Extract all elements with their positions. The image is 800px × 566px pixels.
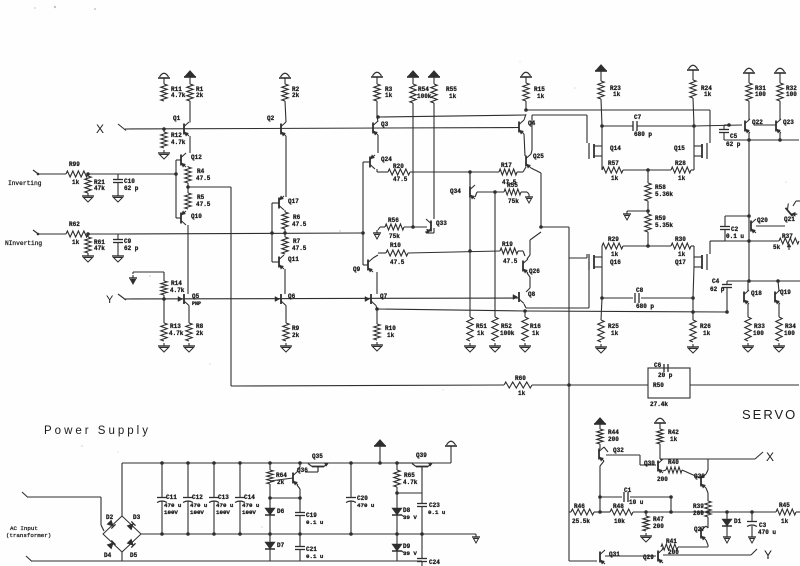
transistor Q31: [599, 552, 601, 563]
wire R29-Q16 drain: [601, 246, 603, 257]
svg-text:1k: 1k: [449, 93, 457, 100]
svg-text:62 p: 62 p: [726, 141, 741, 148]
svg-text:Q32: Q32: [613, 447, 624, 454]
wire positive rail: [122, 462, 451, 464]
resistor R48: [610, 509, 633, 515]
svg-text:R51: R51: [476, 323, 487, 330]
wire Q27 collector: [706, 526, 708, 528]
wire Y servo line: [663, 554, 751, 556]
wire Q20 base line: [756, 225, 785, 227]
svg-text:C9: C9: [124, 238, 132, 245]
wire Q33 emitter: [425, 231, 427, 233]
node R64 top: [268, 461, 272, 465]
svg-text:0.1 u: 0.1 u: [306, 519, 324, 526]
wire R44-Q32: [599, 444, 601, 449]
transistor Q19b: [774, 292, 776, 303]
capacitor C23: [421, 493, 423, 503]
wire R45 end: [796, 511, 800, 513]
wire R1-Q1 collector: [189, 101, 191, 123]
transistor Q10: [180, 213, 182, 224]
power arrow V+ (R32): [776, 68, 785, 72]
svg-text:R99: R99: [69, 161, 80, 168]
transistor Q33: [430, 221, 432, 232]
ground (R61): [87, 253, 89, 256]
svg-text:R34: R34: [785, 323, 796, 330]
svg-text:47.5: 47.5: [390, 259, 405, 266]
capacitor C20: [350, 463, 352, 497]
wire Q35 base: [317, 467, 319, 472]
wire R40-Q28: [682, 470, 700, 478]
wire R32-Q23: [779, 101, 781, 120]
svg-text:5.36k: 5.36k: [655, 191, 673, 198]
wire Q34 down to R51: [469, 198, 471, 318]
svg-text:75k: 75k: [508, 198, 519, 205]
capacitor C6: [663, 364, 665, 372]
resistor R20: [377, 171, 388, 173]
wire R37 line: [749, 240, 779, 242]
node C2 top: [747, 214, 751, 218]
resistor R65: [396, 463, 398, 470]
svg-text:C23: C23: [429, 502, 440, 509]
wire C1 right down: [670, 497, 672, 512]
power arrow (R44): [596, 418, 605, 423]
ground (R34): [778, 343, 780, 346]
power arrow V+ (R24): [689, 65, 698, 69]
svg-text:25.5k: 25.5k: [572, 518, 590, 525]
svg-text:R42: R42: [668, 429, 679, 436]
wire D7-bottom: [269, 549, 271, 561]
transistor Q39: [416, 466, 428, 468]
svg-text:R59: R59: [655, 215, 666, 222]
capacitor C5: [723, 125, 725, 130]
capacitor C8: [602, 297, 633, 299]
resistor R42: [657, 429, 663, 444]
bridge rectifier diamond: [103, 516, 141, 552]
power arrow V+ (R54): [409, 71, 418, 76]
node R11/X junction: [162, 127, 166, 131]
wire D1 C3 line: [727, 511, 776, 513]
power arrow V+ (R11): [160, 73, 169, 77]
transistor Q3: [372, 123, 374, 134]
node Q22 emitter: [747, 138, 751, 142]
transistor Q11: [278, 257, 280, 268]
svg-text:Q10: Q10: [191, 213, 202, 220]
ground (R10b): [376, 342, 378, 345]
svg-text:100: 100: [753, 330, 764, 337]
svg-text:Q7: Q7: [380, 293, 388, 300]
svg-text:Q29: Q29: [643, 554, 654, 561]
node C2 bottom: [747, 239, 751, 243]
transistor Q17 upper: [278, 198, 280, 209]
node R62 out: [86, 232, 90, 236]
power arrow (R42): [656, 418, 665, 422]
wire X out line: [660, 458, 755, 460]
ground (R33): [747, 343, 749, 346]
wire Q17 source down: [693, 267, 694, 298]
svg-text:R8: R8: [196, 323, 204, 330]
resistor R1: [187, 84, 193, 101]
wire Q27 emitter down: [706, 540, 708, 545]
resistor R29: [602, 243, 623, 249]
power arrow V+ (R3): [373, 72, 382, 76]
node bias bottom: [646, 244, 650, 248]
wire R14-Y: [163, 295, 165, 299]
wire Q5-R8: [188, 306, 190, 324]
node R14/Y junction: [162, 297, 166, 301]
MOSFET Q14: [588, 143, 590, 159]
wire Q7 emitter: [376, 306, 377, 310]
MOSFET Q16: [588, 254, 590, 270]
svg-text:62 p: 62 p: [124, 185, 139, 192]
svg-text:62 p: 62 p: [710, 286, 725, 293]
ground (R16): [524, 343, 526, 346]
svg-text:R39: R39: [693, 503, 704, 510]
wire R55 node down to R52: [494, 192, 496, 317]
wire Q24-R20: [376, 169, 378, 172]
wire Q1 emitter down: [189, 136, 191, 153]
node bias mid: [646, 209, 650, 213]
svg-text:1k: 1k: [477, 330, 485, 337]
power arrow V+ (R31): [745, 68, 754, 72]
svg-text:Q20: Q20: [757, 217, 768, 224]
wire Q23 emitter: [779, 133, 781, 140]
diode D7: [269, 534, 271, 542]
svg-text:C8: C8: [636, 287, 644, 294]
resistor R46: [569, 511, 571, 513]
resistor R13: [163, 299, 165, 323]
svg-text:47k: 47k: [94, 245, 105, 252]
svg-text:2k: 2k: [196, 92, 204, 99]
ground (D1): [726, 526, 728, 534]
transistor Q32: [598, 449, 600, 460]
svg-text:4.7k: 4.7k: [169, 330, 184, 337]
resistor R2: [282, 84, 288, 101]
node C3 top: [750, 510, 754, 514]
wire R64-C19 link: [270, 497, 300, 499]
ground (R55): [528, 194, 530, 197]
svg-text:100k: 100k: [417, 93, 432, 100]
resistor R30: [671, 243, 691, 249]
resistor R7: [282, 237, 288, 254]
capacitor C19: [299, 498, 301, 512]
wire R19-Q26: [518, 250, 523, 252]
resistor R16: [524, 311, 526, 317]
transistor Q30: [657, 461, 659, 472]
resistor R32: [777, 83, 783, 101]
svg-text:1k: 1k: [703, 330, 711, 337]
wire Q32 emitter down: [600, 461, 604, 466]
svg-text:1k: 1k: [678, 251, 686, 258]
Y input tick: [118, 294, 126, 300]
wire y110: [526, 109, 710, 111]
resistor R39 trimmer: [705, 501, 711, 517]
ground (R8): [188, 343, 190, 346]
wire servo bottom wire: [568, 512, 570, 561]
ground (R56): [376, 230, 378, 233]
svg-text:1k: 1k: [518, 390, 526, 397]
svg-text:1k: 1k: [611, 251, 619, 258]
capacitor C13: [212, 461, 216, 465]
svg-text:470 u: 470 u: [242, 502, 260, 509]
svg-text:10 u: 10 u: [629, 499, 644, 506]
wire Q26 emitter down: [527, 273, 530, 277]
node R64 bottom: [268, 496, 272, 500]
power arrow (rail): [376, 440, 385, 445]
transistor Q36: [292, 473, 294, 484]
svg-text:R56: R56: [388, 217, 399, 224]
wire R28-Q15 source: [691, 169, 694, 171]
svg-text:39 V: 39 V: [403, 550, 417, 557]
resistor R23: [598, 81, 604, 99]
wire Q23 base line: [754, 124, 776, 126]
wire R55b-Q33 collector: [433, 103, 435, 219]
capacitor C7: [602, 125, 633, 127]
resistor R6: [282, 212, 288, 229]
node Q23 emitter: [778, 138, 782, 142]
svg-text:1k: 1k: [670, 436, 678, 443]
resistor R99: [66, 171, 88, 177]
resistor R28: [671, 167, 691, 173]
svg-text:Q24: Q24: [381, 156, 392, 163]
node R47 tap: [644, 510, 648, 514]
resistor R10b: [376, 309, 378, 324]
svg-text:4.7k: 4.7k: [403, 479, 418, 486]
node feedback/bracket junction: [361, 231, 365, 235]
svg-text:C7: C7: [634, 114, 642, 121]
svg-text:SERVO: SERVO: [742, 407, 797, 422]
svg-text:Q18: Q18: [751, 290, 762, 297]
svg-text:R25: R25: [608, 323, 619, 330]
wire y117: [378, 115, 525, 117]
resistor R59: [645, 214, 651, 232]
svg-text:Q17: Q17: [288, 198, 299, 205]
svg-text:20 p: 20 p: [658, 372, 673, 379]
svg-text:100: 100: [784, 330, 795, 337]
wire Q34 collector up: [469, 171, 471, 187]
svg-text:Q8: Q8: [528, 291, 536, 298]
svg-text:R20: R20: [393, 163, 404, 170]
node R99 out: [86, 172, 90, 176]
ground (R14 top): [132, 275, 134, 278]
wire R57-R28: [623, 169, 671, 171]
node R6/R7 junction: [283, 231, 287, 235]
svg-text:Q11: Q11: [288, 256, 299, 263]
resistor R8: [186, 323, 192, 341]
wire R54 down: [412, 103, 414, 227]
svg-text:100V: 100V: [164, 509, 178, 516]
wire R31-Q22: [748, 101, 750, 120]
svg-text:R29: R29: [608, 236, 619, 243]
svg-text:R12: R12: [171, 132, 182, 139]
resistor R4: [185, 167, 191, 183]
wire servo left column: [568, 385, 570, 512]
wire to C10: [88, 173, 118, 175]
svg-text:R16: R16: [530, 323, 541, 330]
svg-text:200: 200: [657, 476, 668, 483]
svg-text:PNP: PNP: [192, 301, 201, 307]
wire Q9 emitter down: [376, 272, 378, 294]
ground (R25): [600, 344, 602, 347]
ground (R13): [163, 343, 165, 346]
wire Q36 base: [270, 478, 293, 481]
svg-text:R9: R9: [292, 325, 300, 332]
svg-text:D9: D9: [403, 543, 411, 550]
node servo tap: [567, 383, 571, 387]
transistor Q18b: [743, 292, 745, 303]
resistor R14: [161, 281, 167, 295]
AC input tick top: [22, 492, 28, 498]
svg-text:R10: R10: [385, 325, 396, 332]
wire C19-rail: [299, 516, 301, 535]
resistor R5: [185, 193, 191, 209]
wire Q14 source-R57: [601, 156, 603, 170]
svg-text:D4: D4: [104, 552, 112, 559]
wire C5 top: [724, 124, 729, 126]
svg-text:Q23: Q23: [783, 119, 794, 126]
transistor Q8: [518, 292, 520, 302]
svg-text:1k: 1k: [532, 330, 540, 337]
svg-text:R40: R40: [668, 459, 679, 466]
wire Q3 collector: [377, 117, 378, 122]
transistor Q1: [183, 124, 185, 135]
power arrow V+ (R15): [522, 72, 531, 76]
wire bridge bottom: [121, 552, 123, 561]
transistor Q7: [370, 294, 372, 304]
capacitor C12: [186, 461, 190, 465]
AC input tick bottom: [26, 556, 32, 562]
wire y309: [377, 309, 525, 311]
wire bridge top to rail: [121, 463, 123, 516]
wire R24-Q15 drain: [693, 98, 694, 126]
wire R17-Q25: [517, 171, 523, 173]
resistor R64: [269, 463, 271, 470]
power arrow V+ (R1): [186, 71, 195, 76]
svg-text:D3: D3: [133, 514, 141, 521]
svg-text:1k: 1k: [72, 179, 80, 186]
transistor Q23: [775, 121, 777, 132]
svg-text:C4: C4: [712, 278, 720, 285]
wire R4-R5: [187, 183, 189, 193]
svg-text:0.1 u: 0.1 u: [726, 233, 744, 240]
svg-text:Q31: Q31: [609, 551, 620, 558]
svg-text:100: 100: [786, 91, 797, 98]
wire Q31-Q29 base line: [605, 555, 656, 557]
svg-text:Inverting: Inverting: [8, 180, 42, 187]
wire Q11 base: [272, 261, 279, 263]
wire Q4 emitter down: [524, 134, 525, 156]
svg-text:2k: 2k: [292, 92, 300, 99]
svg-text:0.1 u: 0.1 u: [428, 509, 446, 516]
resistor R34: [776, 317, 782, 341]
wire Q22 emitter: [748, 133, 750, 140]
wire Q19 collector stub: [778, 281, 779, 292]
transistor Q28: [700, 476, 702, 487]
transistor Q24: [369, 157, 371, 168]
svg-text:0.1 u: 0.1 u: [306, 553, 324, 560]
svg-text:Q12: Q12: [191, 154, 202, 161]
svg-text:X: X: [96, 122, 104, 136]
wire Q16 source down: [601, 267, 603, 298]
resistor R44: [597, 429, 603, 444]
ground (R9): [285, 343, 287, 346]
wire gnd-R14: [132, 272, 134, 274]
node R26 junction: [691, 310, 695, 314]
svg-text:Q27: Q27: [694, 526, 705, 533]
svg-text:200: 200: [608, 436, 619, 443]
wire R46-R48: [594, 511, 610, 513]
svg-text:1k: 1k: [537, 93, 545, 100]
svg-text:D7: D7: [277, 542, 285, 549]
wire R29-R30: [623, 245, 671, 247]
wire Q16 gate branch: [569, 257, 587, 259]
node C19 top: [298, 496, 302, 500]
wire Q12 base bracket: [176, 159, 181, 161]
wire R2-Q2: [285, 101, 286, 122]
wire R10-R19 line: [408, 251, 500, 253]
resistor R62: [66, 231, 88, 237]
wire Q14 gate feed: [586, 115, 588, 143]
wire feedback from R4/R5: [188, 186, 231, 188]
resistor R33: [745, 317, 751, 341]
wire Q8 emitter loop: [524, 304, 526, 308]
svg-text:C3: C3: [759, 522, 767, 529]
wire Q9 collector: [373, 255, 378, 258]
wire Q24 base bracket: [363, 161, 370, 163]
wire Q17 base bracket: [272, 202, 279, 204]
wire Q34 emitter: [475, 192, 477, 197]
wire y281 line: [727, 280, 800, 282]
wire Q29 collector: [662, 548, 663, 550]
resistor R21: [87, 174, 89, 176]
resistor R47: [645, 512, 647, 516]
svg-text:680 p: 680 p: [634, 131, 652, 138]
node inverting junction: [174, 172, 178, 176]
svg-text:Q2: Q2: [267, 115, 275, 122]
wire to Q12 base: [118, 173, 176, 175]
transistor Q9: [367, 260, 369, 271]
ground (bias): [626, 211, 628, 214]
wire R64-D6: [269, 484, 271, 508]
wire R3-Q3: [376, 101, 378, 117]
wire R65-Q39 link: [397, 492, 422, 494]
svg-text:D6: D6: [277, 508, 285, 515]
svg-text:100V: 100V: [242, 509, 256, 516]
svg-text:Q39: Q39: [416, 452, 427, 459]
wire inverting: [38, 173, 66, 175]
svg-text:C24: C24: [429, 559, 440, 566]
wire R23-Q14 drain: [601, 99, 602, 126]
svg-text:62 p: 62 p: [124, 245, 139, 252]
wire Q34-R55: [477, 191, 504, 193]
wire Y line: [124, 298, 519, 299]
svg-text:R14: R14: [171, 280, 182, 287]
transistor Q21: [785, 203, 798, 217]
wire Q39 base down: [421, 468, 423, 493]
svg-text:D1: D1: [734, 518, 742, 525]
svg-text:Q6: Q6: [288, 293, 296, 300]
wire R20 node down to R51: [469, 172, 471, 185]
svg-text:680 p: 680 p: [636, 303, 654, 310]
resistor R41: [661, 544, 678, 550]
svg-text:470 u: 470 u: [357, 502, 375, 509]
transistor Q20: [750, 221, 752, 232]
wire C2 branch top: [725, 215, 749, 217]
wire Q25 emitter down: [531, 168, 541, 173]
resistor R10: [378, 252, 386, 254]
wire to C9: [88, 233, 118, 235]
diode D9 zener: [396, 534, 398, 544]
diode D4: [107, 540, 115, 548]
